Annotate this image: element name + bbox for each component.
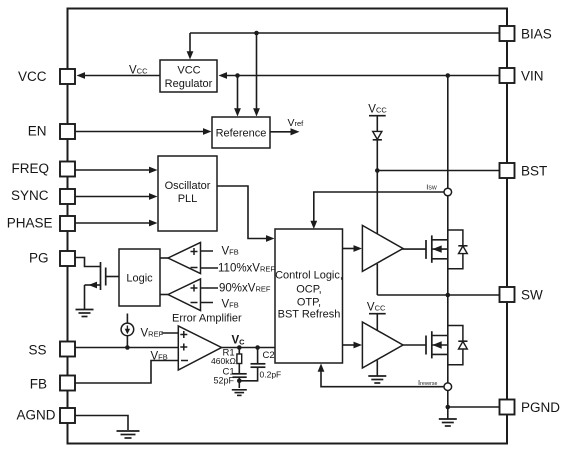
svg-text:52pF: 52pF — [214, 376, 235, 386]
junction dot C1 bottom — [237, 379, 242, 384]
wire control logic to low-side driver — [343, 342, 363, 349]
IC outer boundary box — [68, 9, 508, 444]
wire BST pin — [377, 170, 499, 172]
svg-text:VCC: VCC — [18, 69, 47, 84]
junction dot Vc R1 — [237, 345, 242, 350]
ground under low-side driver — [368, 376, 386, 383]
wire Logic to comparator 1 output — [160, 257, 169, 259]
wire control logic to high-side driver — [343, 245, 363, 252]
pin PHASE — [7, 216, 75, 231]
wire PG pin to transistor drain — [75, 258, 100, 267]
svg-text:VCC: VCC — [129, 65, 148, 77]
ground under PG transistor — [76, 310, 94, 317]
svg-text:VREF: VREF — [141, 328, 164, 340]
capacitor C1 — [233, 374, 247, 388]
svg-text:AGND: AGND — [16, 408, 55, 423]
wire AGND to analog ground — [76, 416, 129, 431]
VIN rail from Isw down to SW node — [447, 196, 449, 295]
pin PGND — [500, 400, 561, 415]
capacitor C2 — [239, 348, 265, 381]
power ground symbol — [439, 419, 457, 426]
svg-text:90%xVREF: 90%xVREF — [219, 283, 271, 295]
svg-text:VFB: VFB — [222, 299, 239, 311]
svg-text:Error Amplifier: Error Amplifier — [172, 313, 242, 325]
svg-text:PHASE: PHASE — [7, 216, 53, 231]
comparator PG upper (points left) — [168, 243, 201, 274]
svg-text:VCC: VCC — [367, 302, 386, 314]
wire oscillator output to control logic — [217, 186, 275, 242]
wire SYNC to oscillator — [76, 193, 158, 200]
wire PGND pin — [448, 406, 500, 408]
wire EN to Reference — [76, 128, 212, 135]
svg-text:Logic: Logic — [126, 273, 153, 285]
wire VIN to VCC regulator right — [219, 72, 500, 79]
block VCC Regulator — [160, 60, 217, 92]
junction dot VIN wire right — [446, 73, 451, 78]
wire SW node — [377, 294, 499, 296]
svg-text:VIN: VIN — [521, 68, 544, 83]
junction dot BST — [375, 168, 380, 173]
current source ISS — [121, 314, 134, 348]
block Reference — [212, 117, 270, 148]
wire VCC regulator output to VCC pin — [77, 72, 161, 79]
wire VIN junction down to Reference top — [234, 76, 241, 117]
wire FREQ to oscillator — [76, 167, 158, 174]
pin AGND — [16, 408, 75, 424]
svg-text:SYNC: SYNC — [11, 188, 49, 203]
transistor Q3 low-side MOSFET — [403, 331, 448, 358]
svg-text:SW: SW — [521, 287, 543, 302]
low-side gate driver U3 — [362, 322, 403, 368]
pin SYNC — [11, 188, 75, 204]
svg-text:Reference: Reference — [216, 128, 267, 140]
svg-text:460kΩ: 460kΩ — [211, 356, 236, 366]
wire Isw sense to control logic — [310, 192, 444, 229]
svg-text:BST: BST — [521, 163, 547, 178]
svg-text:0.2pF: 0.2pF — [260, 370, 282, 380]
pin PG — [29, 250, 75, 266]
current sensor Isw circle — [444, 188, 452, 196]
svg-text:C2: C2 — [263, 350, 275, 361]
wire BIAS junction down to Reference top — [253, 33, 260, 117]
svg-text:PLL: PLL — [178, 193, 198, 205]
wire high-side driver to SW rail — [376, 264, 378, 295]
wire FB to error amp inverting input — [76, 361, 179, 384]
block Control Logic / OCP / OTP / BST Refresh — [275, 229, 343, 363]
wire Vref output of Reference — [270, 128, 300, 135]
junction dot PGND — [446, 405, 451, 410]
pin BST — [500, 163, 548, 178]
svg-text:Regulator: Regulator — [165, 78, 213, 90]
transistor Q1 PG open-drain MOSFET — [85, 262, 120, 309]
wire VREF to error amp — [162, 332, 179, 334]
rail Ireverse down to PGND node — [447, 391, 449, 419]
wire error amp output Vc to control logic — [222, 347, 276, 349]
body diode high-side — [448, 230, 468, 269]
comparator 2 input stubs — [201, 288, 219, 303]
wire Ireverse sense to control logic bottom — [318, 364, 444, 387]
SW rail down to Ireverse sensor — [447, 295, 449, 383]
pin EN — [28, 124, 75, 139]
junction dot SW — [446, 293, 451, 298]
comparator PG lower (points left) — [168, 279, 201, 311]
wire BST rail down to high-side driver — [376, 171, 378, 234]
svg-text:OTP,: OTP, — [297, 297, 321, 309]
high-side gate driver U2 — [362, 225, 403, 271]
junction dot Vc C2 — [255, 345, 260, 350]
wire BIAS to VCC regulator top — [187, 33, 500, 60]
VIN rail down to Isw sensor — [447, 76, 449, 189]
wire Logic to comparator 2 output — [160, 294, 169, 296]
svg-text:VCC: VCC — [368, 104, 387, 116]
op-amp error amplifier — [178, 326, 221, 370]
svg-text:BST Refresh: BST Refresh — [278, 309, 341, 321]
svg-text:Oscillator: Oscillator — [165, 180, 211, 192]
Vcc rail bar above bootstrap diode — [369, 115, 386, 117]
analog ground symbol — [117, 431, 140, 438]
pin FB — [30, 376, 75, 392]
pin SS — [28, 342, 75, 358]
current sensor Ireverse circle — [444, 383, 452, 391]
block Oscillator PLL — [158, 156, 217, 231]
svg-text:Vref: Vref — [288, 117, 305, 129]
junction dot SS wire — [125, 345, 130, 350]
svg-text:BIAS: BIAS — [521, 26, 552, 41]
junction dot on BIAS wire — [254, 31, 259, 36]
svg-text:VCC: VCC — [177, 65, 200, 77]
pin VCC — [18, 69, 75, 84]
svg-text:VFB: VFB — [222, 246, 239, 258]
pin FREQ — [11, 161, 75, 177]
svg-text:Control Logic,: Control Logic, — [275, 270, 343, 282]
body diode low-side — [448, 326, 468, 365]
pin SW — [500, 287, 544, 302]
svg-text:EN: EN — [28, 124, 47, 139]
wire SS to error amp — [76, 347, 179, 349]
bootstrap diode D1 — [373, 116, 382, 171]
pin BIAS — [500, 26, 552, 41]
pin VIN — [500, 68, 544, 83]
svg-text:FB: FB — [30, 377, 47, 392]
svg-text:OCP,: OCP, — [296, 284, 321, 296]
Vcc rail bar above low-side driver — [369, 313, 386, 315]
svg-text:PGND: PGND — [521, 400, 560, 415]
transistor Q2 high-side MOSFET — [403, 235, 448, 262]
svg-text:FREQ: FREQ — [11, 161, 49, 176]
wire Vcc to low-side driver — [376, 314, 378, 331]
svg-text:110%xVREF: 110%xVREF — [218, 263, 275, 275]
junction dot VIN wire left — [235, 73, 240, 78]
wire PHASE to oscillator — [76, 220, 158, 227]
svg-text:PG: PG — [29, 250, 49, 265]
ground under C1 — [232, 390, 247, 396]
resistor R1 — [237, 348, 242, 374]
block Logic — [119, 249, 160, 306]
svg-text:SS: SS — [28, 342, 46, 357]
comparator 1 input stubs — [201, 251, 219, 268]
wire low-side driver to ground — [376, 360, 378, 375]
